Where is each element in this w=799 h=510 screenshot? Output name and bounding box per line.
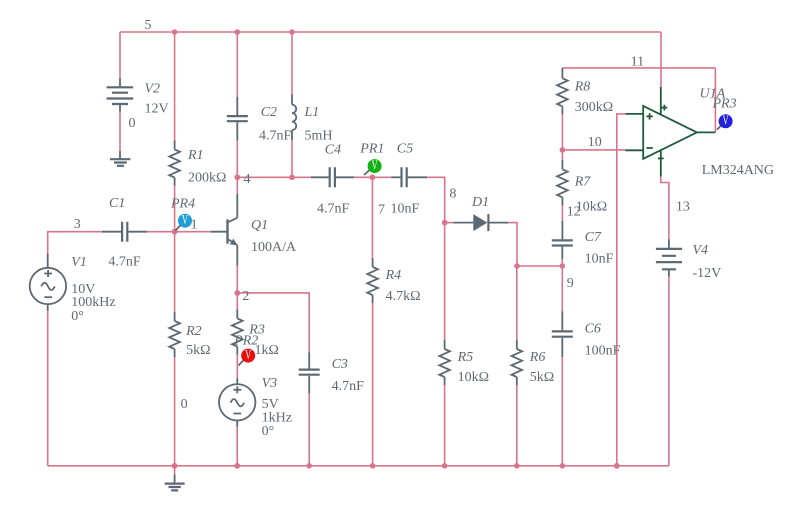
- svg-text:7: 7: [378, 203, 385, 218]
- wire R1 bottom / R2 top: [174, 185, 176, 313]
- svg-text:4: 4: [244, 172, 251, 187]
- probe PR2: [239, 348, 256, 366]
- svg-text:C3: C3: [332, 357, 348, 372]
- node 7 junction: [370, 174, 376, 180]
- svg-text:2: 2: [242, 289, 249, 304]
- svg-text:0°: 0°: [71, 309, 84, 324]
- rail junction R2: [172, 463, 178, 469]
- svg-text:C1: C1: [109, 196, 125, 211]
- svg-text:100kHz: 100kHz: [71, 295, 115, 310]
- wire R5 bottom: [444, 385, 446, 466]
- svg-text:12V: 12V: [145, 101, 169, 116]
- svg-text:R1: R1: [187, 148, 204, 163]
- node 8 junction: [442, 220, 448, 226]
- wire op-amp output up to node 11: [714, 68, 716, 132]
- svg-text:V1: V1: [71, 255, 87, 270]
- svg-text:C4: C4: [325, 143, 341, 158]
- capacitor C7: [552, 221, 573, 259]
- svg-text:300kΩ: 300kΩ: [575, 100, 613, 115]
- svg-text:R2: R2: [185, 324, 202, 339]
- wire D1 anode stub: [445, 222, 454, 224]
- wire D1 cathode to corner: [508, 223, 517, 266]
- AC source V1: [30, 254, 66, 311]
- node 10 junction: [560, 147, 566, 153]
- battery V2: [107, 78, 134, 112]
- wire R2 bottom: [174, 357, 176, 466]
- wire node 7 down to R4: [371, 177, 373, 258]
- svg-text:L1: L1: [304, 105, 320, 120]
- wire C3 bottom: [308, 394, 310, 466]
- svg-text:Q1: Q1: [251, 218, 268, 233]
- wire C1 right to Q1 base: [147, 231, 211, 233]
- svg-text:0: 0: [181, 397, 188, 412]
- wire C2 bottom to Q1 collector: [236, 141, 238, 195]
- svg-text:R4: R4: [385, 268, 402, 283]
- svg-text:10kΩ: 10kΩ: [458, 370, 489, 385]
- node 5 junction at L1: [289, 29, 295, 35]
- svg-text:11: 11: [631, 54, 644, 69]
- svg-text:4.7nF: 4.7nF: [317, 202, 350, 217]
- wire V1 bottom: [47, 311, 49, 466]
- capacitor C6: [552, 312, 573, 358]
- wire node 11 feedback: [562, 67, 715, 69]
- svg-text:4.7kΩ: 4.7kΩ: [386, 289, 421, 304]
- battery V4: [656, 240, 682, 277]
- wire V2 top: [119, 32, 121, 78]
- svg-text:13: 13: [676, 200, 690, 215]
- wire C7 bottom to node 9: [561, 259, 563, 312]
- resistor R1: [169, 141, 180, 186]
- svg-text:PR4: PR4: [170, 196, 195, 211]
- svg-text:C6: C6: [585, 322, 601, 337]
- resistor R7: [557, 160, 568, 205]
- resistor R5: [439, 340, 450, 385]
- svg-text:5: 5: [144, 18, 151, 33]
- wire node 9 horizontal: [517, 265, 562, 267]
- svg-text:4.7nF: 4.7nF: [259, 128, 292, 143]
- wire R7 bottom to C7: [561, 205, 563, 221]
- probe PR4: [175, 213, 192, 230]
- resistor R4: [367, 258, 378, 303]
- resistor R2: [169, 312, 180, 357]
- probe PR3: [717, 114, 733, 130]
- diode D1: [454, 214, 509, 231]
- svg-text:0°: 0°: [262, 424, 275, 439]
- svg-text:R6: R6: [529, 350, 546, 365]
- resistor R3: [232, 310, 243, 355]
- svg-text:LM324ANG: LM324ANG: [702, 163, 774, 178]
- rail junction C3: [306, 463, 312, 469]
- wire C4 to C5 through node 7: [354, 176, 392, 178]
- node 1 junction at base: [172, 229, 178, 235]
- svg-text:-12V: -12V: [693, 266, 722, 281]
- wire R6 bottom: [516, 385, 518, 466]
- capacitor C4: [311, 167, 354, 187]
- transistor Q1: [211, 194, 238, 266]
- node 5 junction at C2: [235, 29, 241, 35]
- wire V2 bottom to ground: [119, 111, 121, 151]
- svg-text:PR3: PR3: [712, 97, 737, 112]
- wire V3 bottom: [236, 427, 238, 466]
- wire R7 top stub: [561, 150, 563, 161]
- svg-text:V: V: [723, 114, 729, 129]
- svg-text:R5: R5: [457, 350, 474, 365]
- svg-text:10nF: 10nF: [391, 202, 420, 217]
- svg-text:R7: R7: [574, 174, 592, 189]
- node 4 junction at L1: [289, 175, 295, 181]
- node 5 junction at R1: [172, 29, 178, 35]
- rail junction R6: [514, 463, 520, 469]
- svg-text:PR1: PR1: [359, 141, 384, 156]
- rail junction R4: [370, 463, 376, 469]
- wire node 2 to C3: [237, 293, 309, 353]
- svg-text:C5: C5: [397, 141, 413, 156]
- wire R6 top: [516, 266, 518, 341]
- svg-text:100A/A: 100A/A: [251, 240, 297, 255]
- wire Q1 emitter to node 2: [236, 266, 238, 293]
- svg-text:C7: C7: [585, 230, 602, 245]
- svg-text:200kΩ: 200kΩ: [188, 170, 226, 185]
- svg-text:V: V: [372, 159, 378, 174]
- svg-text:V4: V4: [693, 243, 709, 258]
- svg-text:D1: D1: [471, 195, 489, 210]
- wire bottom rail node 0: [48, 465, 669, 467]
- wire node 10 to inverting input: [562, 149, 625, 151]
- ground at bottom rail: [165, 475, 185, 491]
- node 9 junction at C7: [560, 263, 566, 269]
- svg-text:3: 3: [74, 217, 81, 232]
- node 2 junction: [234, 290, 240, 296]
- probe PR1: [364, 159, 382, 175]
- wire op-amp negative supply to V4: [661, 176, 669, 240]
- svg-text:100nF: 100nF: [585, 344, 621, 359]
- wire top rail node 5: [120, 31, 661, 33]
- wire R1 top: [174, 32, 176, 141]
- svg-text:PR2: PR2: [233, 334, 258, 349]
- rail junction op-amp input: [614, 463, 620, 469]
- rail junction V3: [234, 463, 240, 469]
- svg-text:5kΩ: 5kΩ: [530, 370, 554, 385]
- svg-text:0: 0: [129, 116, 136, 131]
- svg-text:9: 9: [567, 276, 574, 291]
- capacitor C2: [227, 97, 248, 141]
- svg-text:10: 10: [588, 135, 602, 150]
- wire R4 bottom: [372, 303, 374, 466]
- svg-text:V3: V3: [262, 376, 278, 391]
- wire non-inverting input to ground rail: [617, 114, 626, 466]
- svg-text:10nF: 10nF: [585, 252, 614, 267]
- svg-text:4.7nF: 4.7nF: [108, 254, 140, 269]
- svg-text:R8: R8: [574, 79, 591, 94]
- inductor L1: [292, 95, 296, 141]
- wire R3 top: [236, 293, 238, 310]
- svg-text:V2: V2: [145, 81, 161, 96]
- svg-text:5mH: 5mH: [305, 128, 333, 143]
- op-amp U1A: [626, 87, 716, 176]
- wire L1 top: [291, 32, 293, 95]
- node 4 junction: [234, 174, 240, 180]
- wire C6 bottom: [561, 357, 563, 466]
- resistor R8: [557, 68, 568, 114]
- ground below V2: [110, 151, 130, 166]
- wire V1 top: [48, 232, 102, 254]
- svg-text:8: 8: [449, 187, 456, 202]
- wire R3 bottom to V3: [236, 354, 238, 378]
- wire R5 top: [444, 223, 446, 341]
- resistor R6: [512, 340, 523, 385]
- svg-text:4.7nF: 4.7nF: [332, 379, 365, 394]
- wire C2 top: [236, 32, 238, 97]
- svg-text:V: V: [245, 348, 251, 363]
- AC source V3: [219, 378, 255, 427]
- wire vcc drop to op-amp: [660, 32, 662, 87]
- wire node 4 horizontal: [237, 176, 311, 178]
- wire V4 bottom: [668, 276, 670, 466]
- wire C5 right to node 8: [427, 177, 445, 222]
- wire L1 bottom: [291, 140, 293, 177]
- svg-text:C2: C2: [261, 105, 277, 120]
- svg-text:V: V: [182, 213, 188, 228]
- capacitor C5: [392, 167, 428, 187]
- rail junction R5: [442, 463, 448, 469]
- capacitor C1: [102, 222, 147, 242]
- wire R8 bottom to node 10: [561, 114, 563, 150]
- svg-text:5kΩ: 5kΩ: [186, 343, 210, 358]
- svg-text:10kΩ: 10kΩ: [576, 199, 607, 214]
- wire ground stub below rail: [174, 466, 176, 475]
- node 9 junction left: [514, 263, 520, 269]
- capacitor C3: [299, 353, 320, 394]
- rail junction C6: [560, 463, 566, 469]
